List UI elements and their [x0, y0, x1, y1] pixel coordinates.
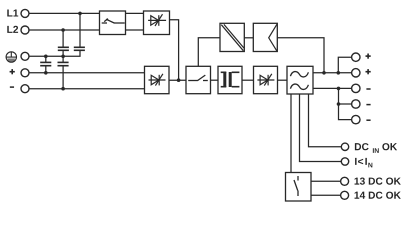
surge suppressor diode D1 [144, 11, 170, 35]
wire to - terminal 2 [339, 103, 352, 105]
wire C3 to + line [45, 66, 47, 73]
wire + branch up to terminal 1 [338, 57, 351, 73]
wire D3 to U1 [278, 79, 288, 81]
wire L2 tap down to C1 [62, 30, 64, 47]
wire K1 to 14 DC OK [311, 194, 341, 196]
capacitor C3 [40, 62, 51, 65]
wire L1 to box S1 [29, 12, 100, 14]
node +/C3 [44, 71, 48, 75]
node + branch [337, 71, 341, 75]
capacitor C4 [58, 62, 69, 65]
node -/C4 [61, 87, 65, 91]
terminal + output 1 [352, 53, 371, 61]
wire C4 to - line [62, 66, 64, 89]
terminal L1 [7, 9, 29, 17]
terminal L2 [7, 26, 29, 34]
wire PE node down to C4 [62, 56, 64, 62]
wire U1 pin3 to DC IN OK [309, 94, 342, 147]
terminal 14 DC OK [341, 191, 401, 199]
node on L2 wire [61, 28, 65, 32]
wire D1 output down to AC/DC node [170, 20, 179, 80]
capacitor C2 [74, 47, 85, 50]
terminal - output 2 [352, 100, 371, 108]
wire K1 to 13 DC OK [311, 180, 341, 182]
node - branch [337, 87, 341, 91]
wire U1 pin2 to I<IN [300, 94, 342, 162]
node - terminal 2 tap [337, 102, 341, 106]
wire U3 to + output node [277, 38, 324, 73]
wire S1 to D1 lower [126, 29, 144, 31]
rectifier D2 [145, 66, 170, 93]
wire U1 - output line [313, 87, 352, 89]
protective earth symbol [6, 52, 16, 62]
wire C1 to PE node [62, 50, 64, 56]
wire + line to rectifier D2 [29, 72, 145, 74]
terminal I<IN [341, 158, 372, 168]
relay K1 [286, 173, 312, 202]
terminal PE [21, 52, 29, 60]
terminal 13 DC OK [341, 177, 401, 185]
wire - branch down [339, 88, 352, 119]
switch S2 [186, 66, 211, 93]
node PE/C3 [44, 55, 48, 59]
node U3 feed [322, 71, 326, 75]
wire S2 to T1 [211, 79, 219, 81]
wire L1 tap down to C2 [79, 13, 81, 47]
wire U2 to U3 [244, 37, 253, 39]
wire S2 tap up to U2 [198, 38, 220, 67]
terminal - (DC input) [10, 85, 29, 93]
wire PE line [29, 50, 80, 56]
input switch S1 [100, 11, 126, 35]
wire L2 to box S1 [29, 29, 100, 31]
wire D2 to S2 [169, 79, 186, 81]
wire U1 + output line [313, 72, 352, 74]
terminal + output 2 [352, 69, 371, 77]
output diode D3 [254, 66, 278, 93]
wire T1 to D3 [242, 79, 254, 81]
node on L1 wire [78, 12, 82, 16]
node PE/C1/C4 [61, 55, 65, 59]
node AC/DC junction [177, 78, 181, 82]
terminal - output 1 [352, 84, 371, 92]
transformer T1 [218, 66, 242, 93]
wire - line to rectifier D2 [29, 88, 145, 90]
regulator U1 [287, 66, 313, 94]
terminal - output 3 [352, 115, 371, 123]
terminal DC IN OK [341, 143, 397, 153]
wire U1 pin1 to relay K1 [290, 94, 292, 173]
wire S1 to D1 upper [126, 12, 144, 14]
capacitor C1 [58, 47, 69, 50]
boost stage U3 [253, 23, 277, 51]
terminal + (DC input) [10, 69, 29, 77]
wire PE node down to C3 [45, 56, 47, 62]
DC/DC converter U2 [220, 23, 244, 51]
